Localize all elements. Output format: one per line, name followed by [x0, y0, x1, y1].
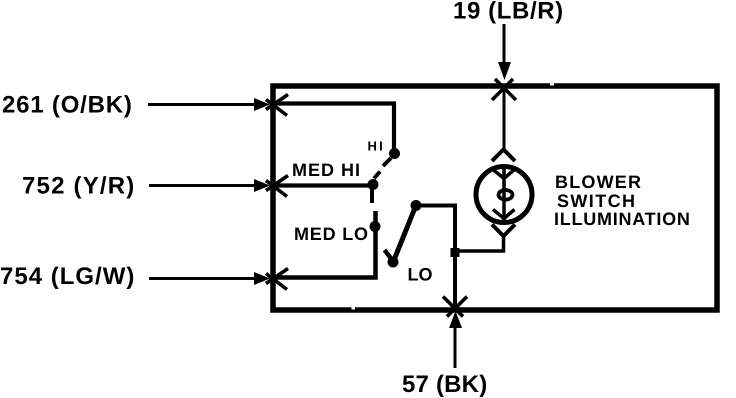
svg-text:752 (Y/R): 752 (Y/R): [22, 173, 136, 200]
lamp circle L1: [476, 167, 532, 223]
svg-text:BLOWER: BLOWER: [555, 172, 642, 192]
wire lamp to splice: [457, 234, 504, 251]
svg-text:MED HI: MED HI: [292, 160, 361, 180]
HI contact arm: [383, 158, 391, 166]
arrowhead 752: [254, 179, 270, 192]
LO contact dot: [388, 257, 399, 268]
lamp filament top arrow: [493, 170, 515, 179]
wire 754 to MED LO contact: [276, 211, 376, 278]
wire 19 lead: [503, 24, 506, 66]
lamp filament line: [502, 167, 506, 221]
switch wiper arm: [394, 207, 416, 261]
wire 261 lead: [148, 103, 257, 106]
connector X at 754 entry: [266, 269, 288, 284]
arrowhead 57: [449, 311, 462, 328]
MED HI contact dot: [368, 179, 379, 190]
svg-text:MED LO: MED LO: [294, 224, 369, 244]
arrowhead 261: [254, 98, 270, 111]
wire 752 lead: [149, 184, 257, 187]
lamp filament bottom arrow: [493, 210, 515, 219]
svg-text:57 (BK): 57 (BK): [402, 371, 487, 398]
wire 752 to MED HI contact: [276, 183, 371, 187]
MED HI contact stem: [370, 189, 374, 203]
wire 754 lead: [149, 277, 257, 280]
svg-text:LO: LO: [408, 265, 433, 285]
svg-text:754 (LG/W): 754 (LG/W): [0, 263, 135, 290]
svg-text:HI: HI: [368, 139, 385, 154]
connector X at 752 entry: [266, 176, 288, 191]
MED LO contact dot: [370, 221, 381, 232]
svg-text:261 (O/BK): 261 (O/BK): [2, 92, 133, 119]
wiper pivot dot: [411, 200, 422, 211]
svg-text:SWITCH: SWITCH: [557, 191, 636, 211]
arrowhead 754: [254, 272, 270, 285]
svg-text:ILLUMINATION: ILLUMINATION: [554, 209, 691, 229]
MED HI contact upper tick: [374, 172, 380, 179]
splice node: [451, 248, 460, 257]
wire 57 lead: [454, 325, 457, 368]
blower switch box outline: [273, 86, 717, 310]
wire 19 to lamp: [503, 88, 506, 149]
LO contact arm: [385, 250, 394, 261]
svg-text:19 (LB/R): 19 (LB/R): [453, 0, 564, 25]
connector chevron below lamp: [492, 225, 515, 237]
HI contact dot: [389, 148, 400, 159]
lamp filament loop: [499, 190, 513, 200]
connector X at 261 entry: [266, 95, 288, 110]
connector chevron above lamp: [492, 150, 515, 162]
wire wiper to ground bus: [416, 206, 455, 308]
connector X at 19 entry: [495, 79, 516, 100]
arrowhead 19: [498, 62, 511, 80]
connector X at 57 exit: [443, 297, 463, 317]
wire 261 to HI contact: [276, 104, 394, 151]
